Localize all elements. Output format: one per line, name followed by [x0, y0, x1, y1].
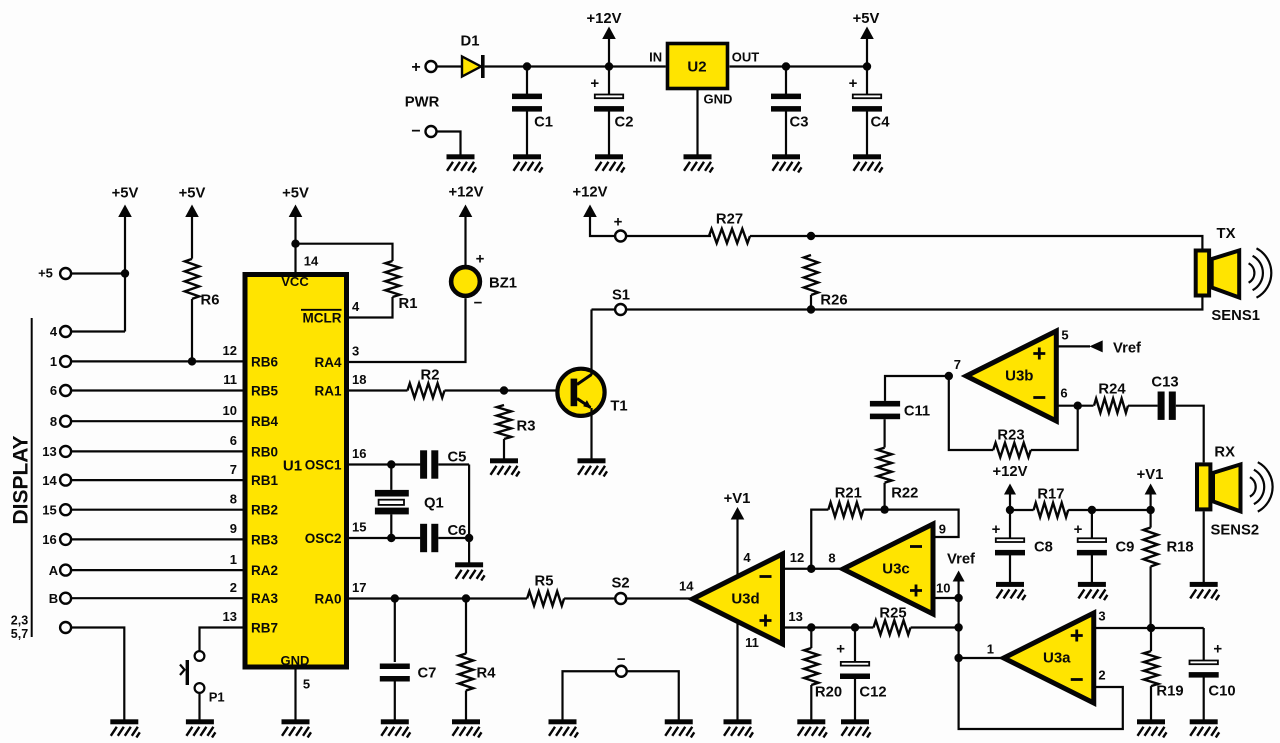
- label +5V (VCC): [282, 185, 309, 201]
- label R4: [477, 665, 497, 681]
- wire U3b pin5 to Vref: [1057, 345, 1090, 347]
- svg-text:R17: R17: [1037, 486, 1064, 502]
- wire R6 bottom lead: [191, 299, 193, 361]
- svg-text:RA0: RA0: [314, 591, 341, 606]
- svg-text:R1: R1: [399, 296, 418, 312]
- svg-text:GND: GND: [704, 92, 733, 107]
- U1 pin name RB5: [251, 383, 278, 398]
- junction R19 C10: [1147, 624, 1155, 632]
- svg-text:2: 2: [1098, 668, 1105, 683]
- resistor R1: [385, 261, 399, 297]
- label terminal 1: [50, 354, 57, 369]
- wire +12V arrow to rail: [608, 39, 610, 67]
- resistor R21: [828, 502, 863, 516]
- terminal 14: [60, 475, 71, 486]
- wire terminal A to U1: [71, 569, 243, 571]
- svg-text:RB6: RB6: [251, 354, 278, 369]
- ground P1: [186, 719, 216, 737]
- resistor R22: [877, 448, 891, 483]
- svg-text:C8: C8: [1034, 539, 1053, 555]
- svg-text:+5V: +5V: [112, 185, 139, 201]
- wire C1 to ground: [526, 111, 528, 154]
- op-amp U3b: [966, 331, 1056, 421]
- ground S2 left: [549, 719, 579, 737]
- svg-text:R5: R5: [535, 573, 554, 589]
- ground S2 right: [665, 719, 695, 737]
- label R21: [835, 485, 862, 501]
- U1 pin name OSC1: [305, 457, 342, 472]
- wire OSC1: [349, 463, 420, 465]
- svg-text:R2: R2: [421, 367, 440, 383]
- label U2: [687, 58, 706, 75]
- label R24: [1098, 381, 1126, 397]
- svg-text:C3: C3: [790, 114, 809, 130]
- wire +5 terminal: [71, 272, 125, 274]
- wire R20 top lead: [810, 628, 812, 649]
- wire R6 top lead: [191, 217, 193, 259]
- label - (PWR minus): [411, 123, 420, 140]
- wire C13 to RX: [1176, 406, 1204, 463]
- U3d pin number 4: [743, 550, 751, 565]
- svg-text:R22: R22: [891, 485, 918, 501]
- svg-text:5,7: 5,7: [11, 627, 28, 641]
- junction C6 common: [465, 534, 473, 542]
- speaker TX SENS1: [1196, 248, 1272, 297]
- wire T1 collector up to S1: [590, 310, 592, 376]
- junction C2: [605, 62, 613, 70]
- label R22: [891, 485, 918, 501]
- wire R25 to node: [911, 626, 959, 628]
- op-amp U3c: [843, 524, 933, 614]
- svg-text:R18: R18: [1167, 539, 1194, 555]
- junction pin7: [945, 372, 953, 380]
- ground C12: [841, 719, 871, 737]
- wire U1 GND pin: [294, 667, 296, 720]
- svg-text:+5: +5: [38, 266, 53, 281]
- wire C3 top lead: [785, 67, 787, 95]
- junction pin12 R21: [807, 565, 815, 573]
- wire U3d pin13 to R25: [783, 626, 874, 628]
- power +12V arrow (R27): [583, 205, 597, 218]
- wire R5 to S2: [564, 597, 615, 599]
- wire R4 to ground: [465, 691, 467, 720]
- power +5V arrow (VCC): [289, 205, 303, 218]
- label VCC: [281, 274, 309, 289]
- wire R3 to ground: [503, 439, 505, 459]
- label + (PWR plus): [411, 59, 420, 76]
- U1 pin number 2: [230, 580, 237, 595]
- junction R4: [462, 594, 470, 602]
- terminal S1: [615, 304, 626, 315]
- svg-text:C6: C6: [448, 523, 467, 539]
- P1 actuator: [180, 660, 187, 685]
- U3c pin number 9: [939, 521, 946, 536]
- label terminal 5,7: [11, 627, 28, 641]
- ground R19: [1137, 719, 1167, 737]
- junction VCC R1: [291, 240, 299, 248]
- wire T1 emitter to ground: [590, 408, 592, 459]
- wire C8 to R17: [1010, 509, 1034, 511]
- wire terminal 1 to U1: [71, 360, 243, 362]
- U1 pin name RA4: [314, 355, 341, 370]
- label SENS1: [1211, 308, 1260, 324]
- display bracket line: [31, 318, 33, 637]
- capacitor C4: [852, 95, 882, 112]
- label +5V (top): [853, 11, 880, 27]
- label terminal B: [49, 591, 58, 606]
- svg-text:7: 7: [230, 462, 237, 477]
- junction +5 wire: [121, 269, 129, 277]
- U3a pin number 1: [987, 642, 994, 657]
- label + (C8): [992, 521, 1001, 538]
- label R5: [535, 573, 554, 589]
- svg-text:RA4: RA4: [314, 355, 341, 370]
- U1 pin number 6: [230, 433, 237, 448]
- svg-text:12: 12: [223, 343, 237, 358]
- U1 pin number 8: [230, 491, 237, 506]
- wire C8 top lead: [1009, 510, 1011, 539]
- svg-text:U3b: U3b: [1005, 368, 1033, 385]
- junction R6 RB6: [188, 357, 196, 365]
- svg-text:C10: C10: [1208, 683, 1235, 699]
- svg-text:R20: R20: [815, 684, 842, 700]
- regulator U2: [668, 44, 728, 89]
- wire R18 to pin3 node: [1149, 566, 1151, 628]
- label OUT (U2): [732, 50, 760, 65]
- U1 pin number 9: [230, 521, 237, 536]
- svg-text:10: 10: [936, 581, 950, 596]
- svg-text:12: 12: [790, 550, 804, 565]
- U3b pin number 5: [1061, 328, 1068, 343]
- wire C12 top lead: [854, 628, 856, 663]
- label + (C10): [1213, 640, 1222, 657]
- wire pin9 loop: [885, 510, 959, 537]
- svg-text:SENS1: SENS1: [1211, 308, 1260, 324]
- label +5V (col2 R6): [179, 185, 206, 201]
- svg-text:18: 18: [352, 372, 366, 387]
- svg-text:RB0: RB0: [251, 444, 278, 459]
- resistor R27: [709, 229, 750, 243]
- ground oscillator: [455, 562, 485, 580]
- diode D1: [462, 55, 485, 78]
- svg-text:+5V: +5V: [853, 11, 880, 27]
- svg-text:3: 3: [352, 344, 359, 359]
- wire RA0 to R5: [349, 597, 527, 599]
- junction C3: [782, 62, 790, 70]
- svg-text:+12V: +12V: [449, 184, 484, 200]
- junction R20: [807, 623, 815, 631]
- resistor R24: [1094, 399, 1128, 413]
- wire terminal 15 to U1: [71, 509, 243, 511]
- svg-text:OSC2: OSC2: [305, 531, 342, 546]
- capacitor C1: [512, 94, 542, 112]
- wire C7 to ground: [394, 681, 396, 720]
- wire C10 top lead: [1203, 628, 1205, 661]
- wire terminal 6 to U1: [71, 389, 243, 391]
- ground display common: [110, 719, 140, 737]
- U1 pin name RA1: [314, 383, 341, 398]
- label Vref (U3b): [1113, 340, 1141, 356]
- junction pin6 R23: [1074, 402, 1082, 410]
- P1 bottom contact: [195, 683, 205, 693]
- ground R4: [452, 719, 482, 737]
- label P1: [209, 690, 225, 705]
- power +12V arrow (top): [602, 27, 616, 40]
- terminal PWR -: [426, 126, 437, 137]
- ground R3: [490, 458, 520, 476]
- svg-text:DISPLAY: DISPLAY: [10, 435, 33, 524]
- label + (C4): [849, 75, 858, 92]
- wire S2 return left to ground: [563, 671, 617, 719]
- wire RA1 to R2: [349, 389, 408, 391]
- svg-text:+: +: [590, 75, 599, 92]
- junction R26 bottom: [807, 305, 815, 313]
- wire S1 left to T1: [592, 308, 616, 310]
- svg-text:PWR: PWR: [405, 94, 440, 110]
- U1 pin number 11: [223, 372, 237, 387]
- wire PWR- to ground: [437, 132, 461, 155]
- capacitor C12: [840, 662, 870, 679]
- label SENS2: [1211, 522, 1260, 538]
- label + (BZ1): [476, 250, 485, 267]
- U1 pin name RB1: [251, 473, 278, 488]
- svg-text:8: 8: [230, 491, 237, 506]
- resistor R19: [1144, 651, 1158, 686]
- label D1: [461, 33, 480, 49]
- svg-text:15: 15: [352, 520, 366, 535]
- U1 pin number 16: [352, 446, 366, 461]
- svg-text:R25: R25: [879, 605, 906, 621]
- label S2: [612, 575, 630, 591]
- U1 pin name RA3: [251, 591, 278, 606]
- svg-text:U3a: U3a: [1043, 650, 1071, 667]
- junction C1: [523, 62, 531, 70]
- wire R27 to TX top: [750, 236, 1202, 249]
- resistor R17: [1034, 503, 1069, 517]
- svg-text:+: +: [1074, 521, 1083, 538]
- label - (BZ1): [474, 294, 483, 311]
- label + (R27 terminal): [614, 213, 623, 230]
- wire terminal to R27: [626, 235, 711, 237]
- svg-text:C7: C7: [418, 665, 437, 681]
- U1 pin name RB2: [251, 503, 278, 518]
- junction +V1 R18: [1146, 506, 1154, 514]
- resistor R26: [804, 255, 818, 295]
- label R3: [517, 418, 536, 434]
- wire U3b pin6 to R24: [1057, 405, 1094, 407]
- capacitor C11: [870, 401, 900, 419]
- junction OSC2 Q1: [387, 534, 395, 542]
- wire R23 loop: [949, 376, 994, 450]
- svg-text:+: +: [836, 640, 845, 657]
- label R18: [1167, 539, 1194, 555]
- svg-text:RA1: RA1: [314, 383, 341, 398]
- wire C9 to ground: [1091, 555, 1093, 582]
- svg-text:C11: C11: [904, 403, 930, 419]
- P1 top contact: [195, 651, 205, 661]
- label C8: [1034, 539, 1053, 555]
- wire C8 to ground: [1009, 555, 1011, 582]
- label C5: [448, 449, 467, 465]
- U1 pin number 14: [304, 254, 319, 269]
- terminal PWR +: [426, 61, 437, 72]
- svg-text:1: 1: [230, 552, 237, 567]
- terminal B: [60, 593, 71, 604]
- label C12: [859, 684, 886, 700]
- label +12V (C8): [993, 464, 1028, 480]
- wire R22 top lead: [883, 419, 885, 447]
- svg-text:D1: D1: [461, 33, 480, 49]
- wire C10 to ground: [1203, 677, 1205, 720]
- U1 pin number 17: [352, 580, 366, 595]
- svg-text:OUT: OUT: [732, 50, 760, 65]
- svg-text:13: 13: [223, 609, 237, 624]
- svg-text:5: 5: [1061, 328, 1068, 343]
- svg-text:R27: R27: [716, 211, 743, 227]
- power +5V arrow (R6): [185, 205, 199, 218]
- junction R3 base: [500, 386, 508, 394]
- svg-text:5: 5: [303, 677, 310, 692]
- label C10: [1208, 683, 1235, 699]
- svg-text:R26: R26: [820, 292, 847, 308]
- wire RX to ground: [1203, 511, 1205, 582]
- svg-text:S2: S2: [612, 575, 630, 591]
- label terminal 16: [42, 532, 56, 547]
- ground C7: [381, 719, 411, 737]
- label + (C2): [590, 75, 599, 92]
- ground C3: [772, 154, 802, 172]
- wire S2 return right to ground: [627, 671, 679, 719]
- wire R24 to C13: [1128, 405, 1158, 407]
- svg-text:B: B: [49, 591, 58, 606]
- svg-text:4: 4: [352, 299, 360, 314]
- label IN (U2): [649, 50, 662, 65]
- label C1: [534, 114, 553, 130]
- svg-text:6: 6: [1060, 385, 1067, 400]
- label C4: [871, 114, 891, 130]
- junction R21 R22 pin9: [880, 505, 888, 513]
- svg-text:9: 9: [230, 521, 237, 536]
- U1 pin name RB0: [251, 444, 278, 459]
- ground U2: [684, 154, 714, 172]
- wire terminal 16 to U1: [71, 538, 243, 540]
- wire +12V to BZ1: [464, 217, 466, 265]
- label T1: [610, 398, 627, 414]
- resistor R20: [804, 648, 818, 685]
- svg-text:+12V: +12V: [573, 184, 608, 200]
- junction C7: [391, 594, 399, 602]
- U3b pin number 6: [1060, 385, 1067, 400]
- power +V1 arrow (U3d): [731, 507, 745, 520]
- svg-text:13: 13: [788, 609, 802, 624]
- svg-text:RB4: RB4: [251, 414, 278, 429]
- svg-text:+5V: +5V: [282, 185, 309, 201]
- wire R19 to ground: [1150, 686, 1152, 719]
- U1 pin number 15: [352, 520, 366, 535]
- capacitor C9: [1077, 538, 1107, 555]
- capacitor C2: [594, 95, 624, 112]
- label terminal A: [49, 563, 59, 578]
- Vref arrow (node): [953, 571, 965, 582]
- label R27: [716, 211, 743, 227]
- svg-text:Vref: Vref: [1113, 340, 1141, 356]
- wire U3a pin3 out: [1094, 627, 1204, 629]
- svg-text:6: 6: [230, 433, 237, 448]
- svg-text:RB2: RB2: [251, 503, 278, 518]
- svg-text:OSC1: OSC1: [305, 457, 342, 472]
- label + (C9): [1074, 521, 1083, 538]
- label S1: [612, 287, 630, 303]
- terminal 2,3/5,7: [60, 622, 71, 633]
- label PWR: [405, 94, 440, 110]
- wire U3d pin11 to ground: [736, 622, 738, 720]
- U1 pin number 7: [230, 462, 237, 477]
- svg-text:R24: R24: [1098, 381, 1126, 397]
- speaker RX SENS2: [1197, 462, 1273, 511]
- label R2: [421, 367, 440, 383]
- svg-text:C4: C4: [871, 114, 891, 130]
- svg-text:+: +: [411, 59, 420, 76]
- svg-text:+: +: [849, 75, 858, 92]
- label R19: [1156, 683, 1183, 699]
- svg-text:9: 9: [939, 521, 946, 536]
- wire C2 top lead: [608, 67, 610, 95]
- ground U1: [282, 719, 312, 737]
- svg-text:RB3: RB3: [251, 532, 278, 547]
- wire C4 to ground: [866, 111, 868, 154]
- resistor R5: [527, 591, 564, 605]
- terminal S2 return: [616, 666, 627, 677]
- U1 pin number 3: [352, 344, 359, 359]
- label 4 terminal: [50, 324, 58, 339]
- svg-text:MCLR: MCLR: [303, 310, 342, 325]
- label Vref (node): [947, 551, 975, 567]
- wire +5V col1 down: [124, 217, 126, 332]
- label RX: [1214, 445, 1235, 461]
- label C7: [418, 665, 437, 681]
- label C6: [448, 523, 467, 539]
- wire R21 to junction: [863, 509, 884, 511]
- wire U3d pin12 to U3c pin8: [783, 568, 844, 570]
- U3d pin number 14: [679, 579, 694, 594]
- wire node to U3a pin1: [959, 657, 1004, 659]
- wire terminal 4: [71, 330, 125, 332]
- wire R23 to pin6: [1031, 406, 1078, 450]
- U1 pin name RB7: [251, 620, 278, 635]
- wire S2 to U3d: [626, 597, 693, 599]
- svg-text:+12V: +12V: [587, 11, 622, 27]
- svg-text:S1: S1: [612, 287, 630, 303]
- ground C2: [595, 154, 625, 172]
- wire Q1 top lead: [390, 465, 392, 490]
- svg-text:17: 17: [352, 580, 366, 595]
- U1 pin number 10: [223, 403, 237, 418]
- wire R17 to C9 junction: [1068, 509, 1150, 511]
- label C9: [1116, 539, 1135, 555]
- U1 pin number 18: [352, 372, 366, 387]
- svg-text:8: 8: [50, 414, 57, 429]
- junction C9: [1088, 506, 1096, 514]
- svg-text:3: 3: [1098, 609, 1105, 624]
- svg-text:C13: C13: [1151, 374, 1178, 390]
- label + (C12): [836, 640, 845, 657]
- svg-text:U2: U2: [687, 58, 706, 75]
- label GND (U2): [704, 92, 733, 107]
- terminal A: [60, 565, 71, 576]
- svg-text:14: 14: [679, 579, 694, 594]
- IC U1 body: [245, 275, 347, 668]
- label +12V (R27): [573, 184, 608, 200]
